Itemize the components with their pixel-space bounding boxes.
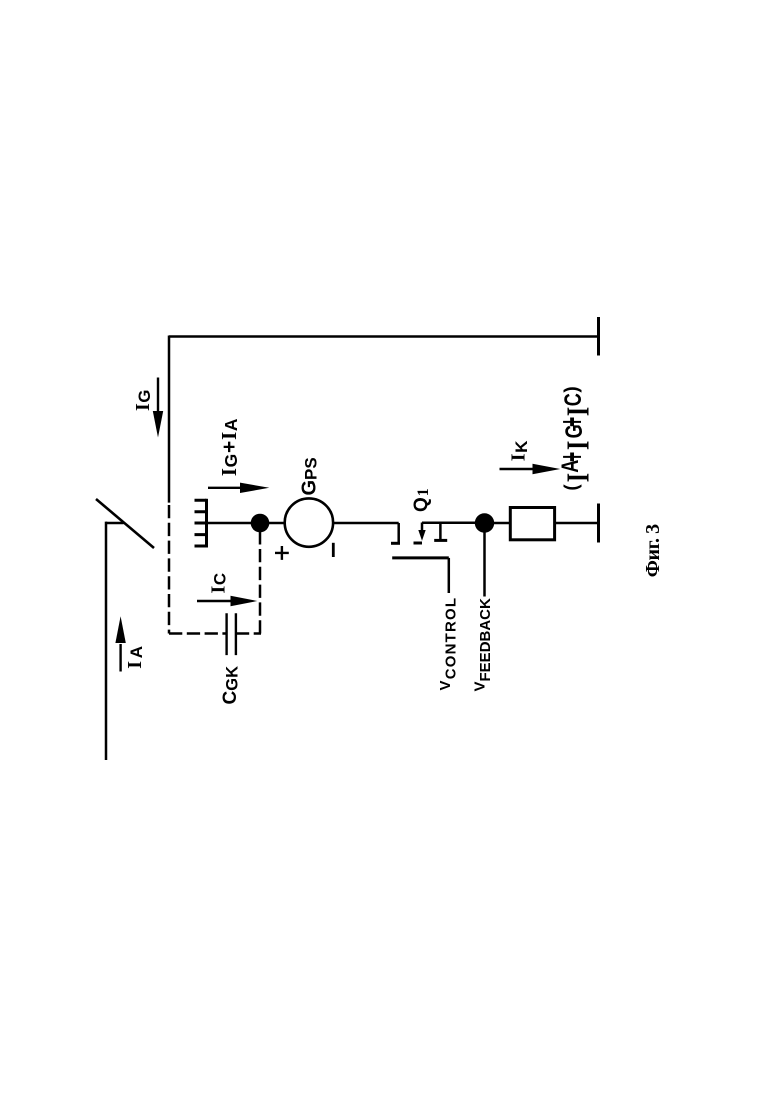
thyristor gate comb spine — [205, 499, 208, 548]
svg-text:Q1: Q1 — [411, 487, 432, 512]
wire: resistor to cathode terminal — [556, 522, 599, 525]
transistor Q1 source contact bar — [434, 539, 447, 542]
svg-text:Фиг. 3: Фиг. 3 — [642, 524, 664, 577]
svg-text:I: I — [562, 473, 597, 482]
transistor Q1 gate line — [392, 556, 449, 559]
arrow IC (right) — [197, 596, 257, 606]
wire: dashed vertical up to node dot — [259, 531, 262, 634]
svg-text:I: I — [562, 441, 597, 450]
anode wire vertical long — [105, 522, 108, 760]
wire: node dot to GPS circle — [268, 522, 284, 525]
svg-text:CGK: CGK — [220, 666, 242, 705]
svg-text:IG: IG — [132, 389, 154, 411]
node: junction dot at Q1 source — [475, 513, 494, 532]
arrow IG+IA (right) — [208, 483, 269, 493]
transistor Q1 source lead — [439, 523, 442, 540]
terminal: cathode T bar — [597, 504, 600, 543]
wire: GPS to Q1 drain — [334, 522, 399, 525]
wire: left bus vertical solid — [168, 336, 171, 503]
anode wire horizontal stub — [106, 522, 124, 525]
transistor Q1 body arrowhead — [418, 530, 425, 541]
wire: Q1 source/body to node dot 2 — [422, 521, 477, 524]
label (IA+IG+IC) — [552, 386, 596, 490]
wire: node dot 2 down to VFEEDBACK — [483, 530, 486, 597]
arrow IA (up) — [115, 616, 125, 671]
wire: node dot 2 to resistor — [492, 522, 509, 525]
transistor Q1 drain contact bar — [391, 542, 400, 545]
resistor R box — [510, 508, 554, 540]
transistor Q1 body arrow lead — [421, 523, 424, 531]
current source GPS circle — [285, 498, 333, 546]
svg-text:IK: IK — [508, 440, 532, 461]
plus sign at GPS left — [275, 546, 289, 560]
svg-text:): ) — [562, 386, 583, 392]
svg-text:IA: IA — [124, 643, 146, 669]
svg-text:+: + — [552, 452, 591, 462]
svg-text:(: ( — [562, 484, 583, 491]
svg-text:IC: IC — [208, 572, 230, 593]
svg-text:IG+IA: IG+IA — [217, 418, 241, 476]
svg-text:GPS: GPS — [298, 457, 320, 495]
arrow IG (down) — [153, 378, 163, 438]
wire: dashed vertical left (gate loop) — [168, 505, 171, 634]
transistor Q1 body contact bar — [414, 542, 423, 545]
wire: dashed horizontal from capacitor right — [236, 632, 261, 635]
thyristor gate comb teeth — [195, 500, 207, 546]
minus sign at GPS right — [332, 543, 335, 557]
transistor Q1 gate lead down — [448, 558, 451, 593]
node: junction dot at gate comb — [251, 514, 270, 533]
wire: dashed horizontal to capacitor left — [169, 632, 227, 635]
svg-text:+: + — [552, 417, 591, 427]
wire: comb to node dot — [207, 522, 254, 525]
capacitor CGK plates — [227, 613, 236, 655]
arrow IK (right) — [500, 464, 561, 474]
svg-text:C: C — [561, 393, 587, 406]
terminal: top-right T bar — [597, 317, 600, 356]
wire: top bus horizontal — [169, 335, 599, 338]
diagonal break line — [96, 499, 154, 548]
transistor Q1 drain lead down — [397, 523, 400, 542]
svg-text:I: I — [562, 407, 597, 416]
